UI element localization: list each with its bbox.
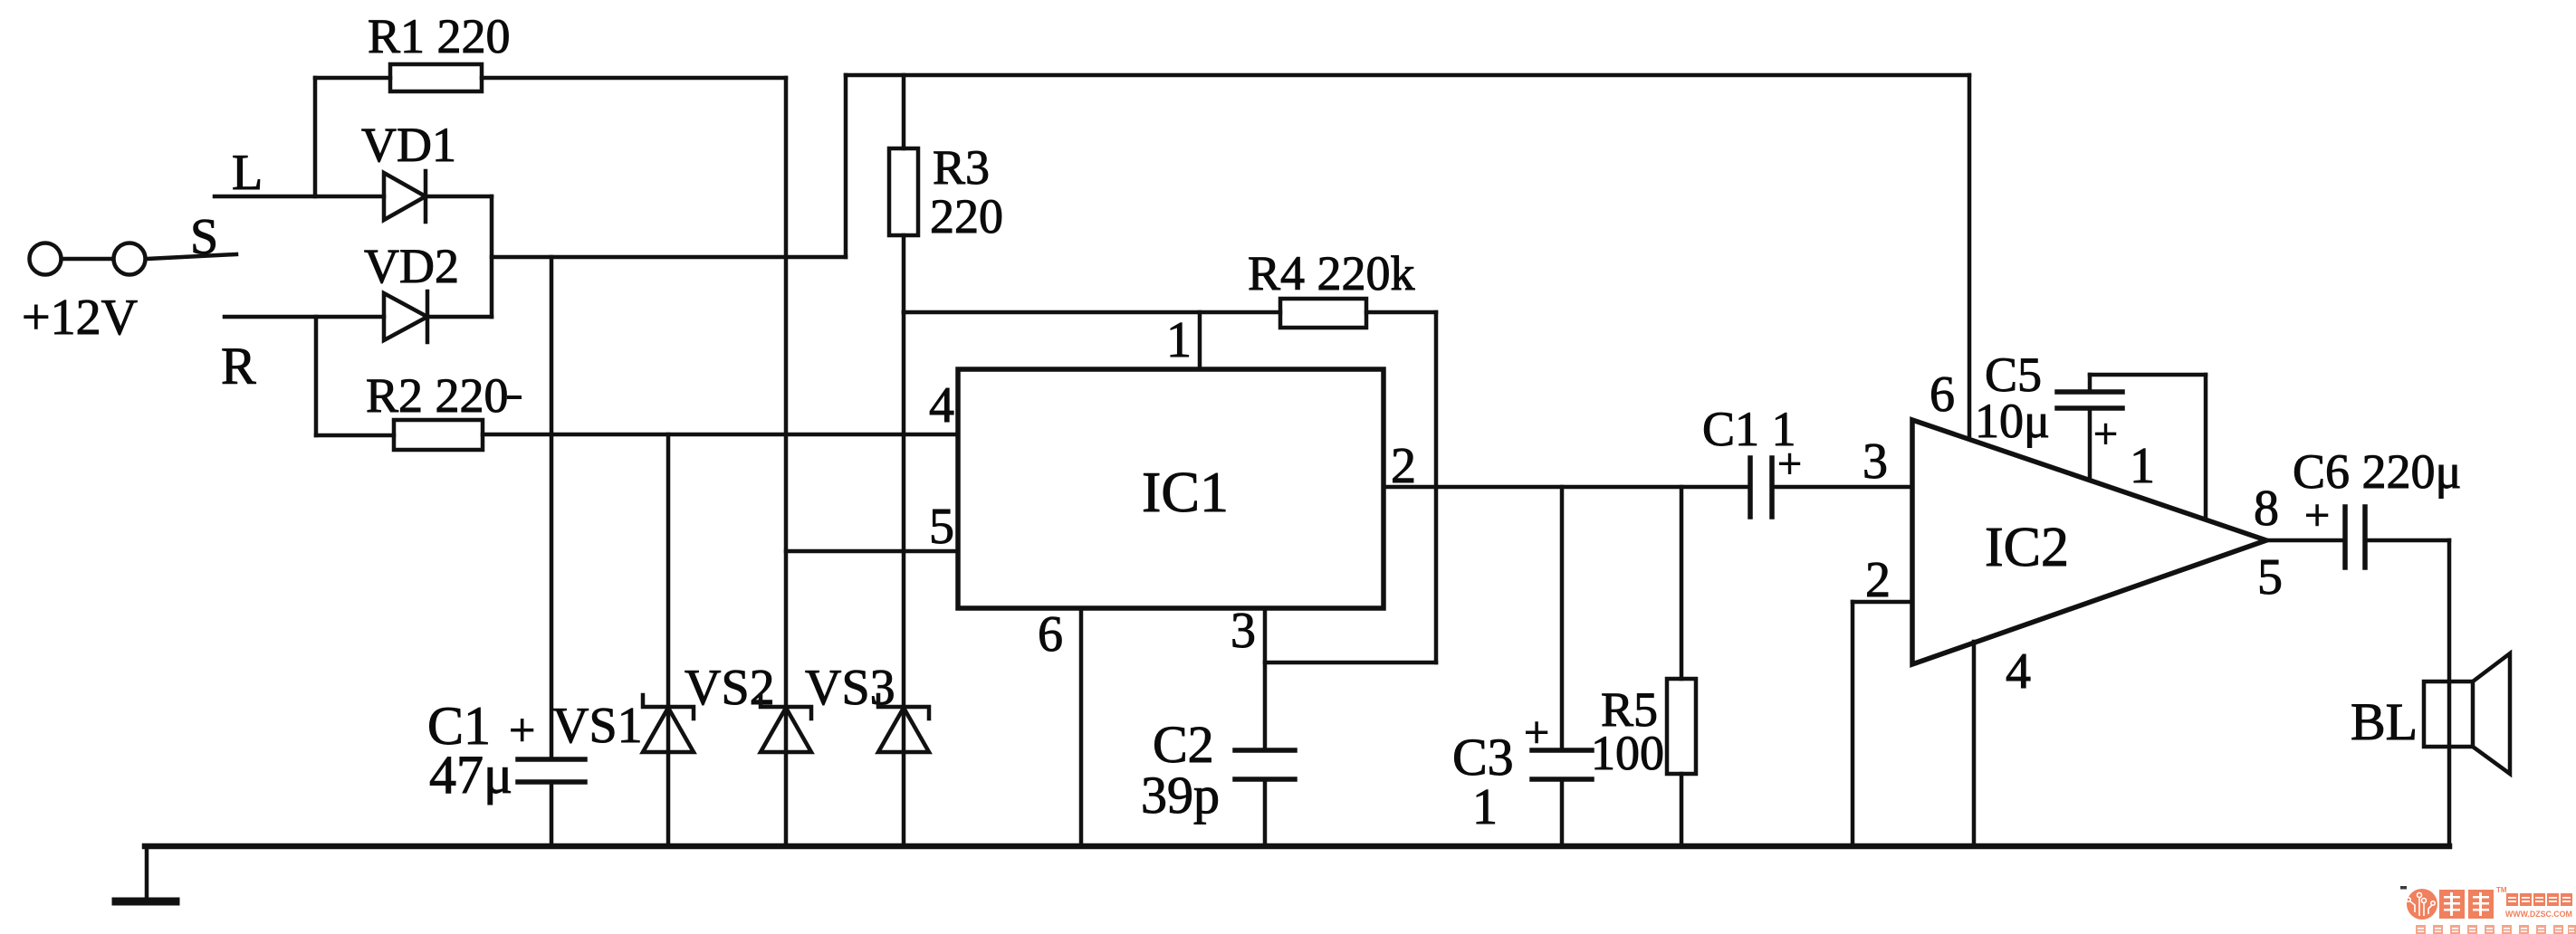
capacitor C6 xyxy=(2266,507,2449,567)
wire R4 return to pin3 xyxy=(1265,661,1436,665)
label pin 2 IC1 xyxy=(1391,438,1416,494)
label VD1 xyxy=(361,118,456,172)
svg-text:R4 220k: R4 220k xyxy=(1248,246,1415,300)
svg-text:R: R xyxy=(221,337,256,396)
label pin 2 IC2 xyxy=(1865,552,1891,608)
svg-text:WWW.DZSC.COM: WWW.DZSC.COM xyxy=(2505,910,2572,919)
label IC1 xyxy=(1142,460,1229,524)
svg-text:2: 2 xyxy=(1865,552,1891,608)
svg-text:+12V: +12V xyxy=(22,290,138,346)
svg-text:220: 220 xyxy=(930,189,1003,243)
svg-text:+: + xyxy=(2304,490,2330,540)
wire ground rail xyxy=(145,843,2449,850)
svg-text:1: 1 xyxy=(1166,312,1192,368)
watermark text 电子市场网 xyxy=(2506,893,2572,906)
label R1 220 xyxy=(368,9,511,63)
label L xyxy=(232,145,263,201)
resistor R5 xyxy=(1667,487,1696,846)
svg-text:R1 220: R1 220 xyxy=(368,9,511,63)
svg-text:VD1: VD1 xyxy=(361,118,456,172)
wire C1 node vertical xyxy=(550,257,554,759)
label R3 220 xyxy=(930,189,1003,243)
label C2 xyxy=(1153,715,1214,774)
label C3 xyxy=(1452,728,1514,786)
svg-text:1: 1 xyxy=(2130,438,2155,494)
zener diode VS1 xyxy=(643,434,694,846)
svg-text:R3: R3 xyxy=(933,140,990,195)
wire S node corner up xyxy=(844,75,848,257)
wire L input xyxy=(215,195,384,199)
watermark text 维库 xyxy=(2439,890,2494,919)
svg-text:39p: 39p xyxy=(1141,766,1220,824)
label C1 coupling plus xyxy=(1777,440,1802,488)
label C6 220u xyxy=(2293,444,2461,499)
svg-text:47μ: 47μ xyxy=(429,745,512,805)
wire pin 2 output xyxy=(1384,485,1750,490)
label C5 plus xyxy=(2093,410,2118,458)
ground symbol xyxy=(116,846,176,901)
svg-text:4: 4 xyxy=(929,377,954,434)
capacitor C5 xyxy=(2057,375,2206,519)
svg-text:VS1: VS1 xyxy=(552,698,643,754)
svg-text:C3: C3 xyxy=(1452,728,1514,786)
label R4 220k xyxy=(1248,246,1415,300)
label C1 xyxy=(427,696,491,756)
watermark TM xyxy=(2496,886,2507,894)
label 47u xyxy=(429,745,512,805)
label C3 1 xyxy=(1472,779,1498,835)
zener diode VS2 xyxy=(761,78,811,846)
svg-text:4: 4 xyxy=(2006,643,2031,700)
watermark logo circle xyxy=(2407,889,2437,920)
label C3 plus xyxy=(1524,707,1549,758)
capacitor C3 xyxy=(1532,750,1592,846)
diode VD2 xyxy=(384,291,492,342)
label pin 4 IC2 xyxy=(2006,643,2031,700)
label R2 220 xyxy=(366,368,522,423)
svg-text:8: 8 xyxy=(2254,481,2279,537)
diode VD1 xyxy=(384,171,492,222)
label pin 3 IC2 xyxy=(1863,434,1888,490)
label R5 xyxy=(1601,682,1658,737)
label R xyxy=(221,337,256,396)
svg-text:100: 100 xyxy=(1591,726,1664,780)
svg-text:+: + xyxy=(509,705,535,757)
svg-text:R2 220: R2 220 xyxy=(366,368,509,423)
svg-text:VD2: VD2 xyxy=(364,239,459,293)
label pin 4 IC1 xyxy=(929,377,954,434)
svg-text:BL: BL xyxy=(2351,692,2418,751)
svg-text:5: 5 xyxy=(2257,549,2283,605)
wire speaker feed down xyxy=(2447,540,2452,846)
svg-text:10μ: 10μ xyxy=(1975,394,2050,448)
svg-text:IC1: IC1 xyxy=(1142,460,1229,524)
connector +12V plug xyxy=(30,243,146,275)
svg-text:TM: TM xyxy=(2496,886,2507,894)
label pin 3 IC1 xyxy=(1231,603,1256,659)
svg-text:3: 3 xyxy=(1231,603,1256,659)
resistor R2 xyxy=(316,420,958,450)
resistor R1 xyxy=(315,64,786,91)
svg-text:+: + xyxy=(1777,440,1802,488)
label VS3 xyxy=(805,660,895,716)
wire pin 4 IC2 to ground xyxy=(1972,642,1977,846)
label R5 100 xyxy=(1591,726,1664,780)
label C5 xyxy=(1985,348,2042,402)
label VS2 xyxy=(685,660,775,716)
speaker BL xyxy=(2424,653,2510,774)
svg-text:L: L xyxy=(232,145,263,201)
wire R input xyxy=(225,315,384,319)
wire L branch up to R1 xyxy=(313,78,318,196)
wire diode join vertical xyxy=(490,196,494,317)
label 10u xyxy=(1975,394,2050,448)
label pin 8 IC2 xyxy=(2254,481,2279,537)
label VD2 xyxy=(364,239,459,293)
wire pin1 node horizontal xyxy=(904,310,1280,315)
svg-text:S: S xyxy=(190,209,218,265)
label 39p xyxy=(1141,766,1220,824)
label C1 plus xyxy=(509,705,535,757)
label R3 xyxy=(933,140,990,195)
label pin 6 IC2 xyxy=(1930,367,1955,423)
op-amp IC2 triangle xyxy=(1912,420,2266,664)
wire pin 3 down xyxy=(1263,608,1268,750)
label BL xyxy=(2351,692,2418,751)
resistor R3 xyxy=(889,75,918,312)
label C6 plus xyxy=(2304,490,2330,540)
wire pin 6 IC2 from rail xyxy=(1968,75,1972,438)
label pin 5 IC2 xyxy=(2257,549,2283,605)
wire pin 5 xyxy=(786,549,958,554)
label +12V xyxy=(22,290,138,346)
label pin 5 IC1 xyxy=(929,499,954,555)
switch S arm xyxy=(147,254,236,259)
wire R branch down to R2 xyxy=(314,317,319,435)
zener diode VS3 xyxy=(878,312,929,846)
wire pin 2 IC2 xyxy=(1853,602,1910,846)
svg-text:6: 6 xyxy=(1930,367,1955,423)
capacitor C1 coupling (series) xyxy=(1750,458,1910,517)
wire C3 node vertical xyxy=(1560,487,1565,750)
svg-text:3: 3 xyxy=(1863,434,1888,490)
label S xyxy=(190,209,218,265)
resistor R4 xyxy=(1280,299,1436,328)
label VS1 xyxy=(552,698,643,754)
svg-text:6: 6 xyxy=(1038,606,1063,662)
capacitor C2 xyxy=(1235,750,1295,846)
wire R4 right corner down xyxy=(1434,312,1439,662)
label C1 1 xyxy=(1702,402,1796,456)
label pin 1 IC2 xyxy=(2130,438,2155,494)
scan speck xyxy=(2400,886,2407,890)
label pin 6 IC1 xyxy=(1038,606,1063,662)
watermark url xyxy=(2505,910,2572,919)
capacitor C1 47u xyxy=(518,759,585,846)
watermark slogan xyxy=(2416,925,2576,934)
svg-text:IC2: IC2 xyxy=(1985,517,2069,578)
wire pin 6 to ground xyxy=(1079,608,1084,846)
wire top supply rail xyxy=(846,73,1969,78)
op-amp IC1 box xyxy=(958,369,1384,608)
svg-text:+: + xyxy=(2093,410,2118,458)
label pin 1 IC1 xyxy=(1166,312,1192,368)
wire S node horizontal xyxy=(492,255,846,260)
label IC2 xyxy=(1985,517,2069,578)
wire pin 1 stub xyxy=(1198,312,1202,369)
svg-text:5: 5 xyxy=(929,499,954,555)
svg-text:1: 1 xyxy=(1472,779,1498,835)
